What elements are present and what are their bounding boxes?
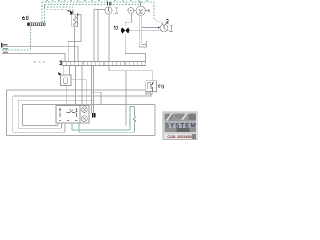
wire bus C2 left vertical (12, 96, 14, 132)
wire B1 left lead (94, 9, 105, 11)
grid connector 88 (92, 113, 96, 118)
wire vertical x98 to strip (97, 10, 99, 62)
wire L3 drop to strip (64, 54, 66, 62)
wire thermostat bottom to relay box (65, 86, 67, 106)
thermal cutout arrow (69, 11, 73, 15)
label of thermal cutout (67, 10, 69, 12)
wire bus C2 top y96 to box113 bottom (13, 92, 151, 96)
wire from cutout dot right-down-left to terminal strip (68, 15, 81, 62)
sensor bottom lead teal (133, 122, 135, 132)
wire M1 lead down right (142, 15, 147, 44)
wire link y92.2 (92, 91, 102, 93)
wire strip down at x109 (108, 66, 110, 71)
label 10 fan (114, 26, 118, 29)
label of line L1 (3, 44, 7, 45)
bus wire number labels (46, 0, 148, 2)
wire strip to grid connector b (93, 66, 95, 113)
wire motor line to gauge B2 with arrow (142, 27, 159, 29)
wire bus C1 top y90 to box113 (7, 89, 146, 91)
label 85 thermostat (58, 72, 61, 75)
relay lamp top (82, 107, 88, 113)
wire relay teal lead 2 (79, 123, 134, 132)
label above pressure switch B1 (107, 2, 112, 5)
label of line L2 (3, 48, 8, 49)
relay contact 2 (75, 108, 77, 117)
logo box (163, 112, 197, 140)
wire from bus to thermal cutout top (72, 9, 74, 14)
wire fan line to gauge contact (129, 30, 169, 32)
relay labels bottom (59, 120, 61, 121)
wire L1 drop to strip (77, 46, 79, 61)
relay contact 1 (59, 108, 61, 117)
wire M1 right lead with open tick (145, 9, 149, 12)
wire teal dashed bus line 1 (42, 1, 154, 3)
wire B1 bottom lead to strip (108, 14, 110, 61)
fan symbol E1 (121, 25, 129, 35)
thermal cutout U1 box (72, 14, 78, 27)
pressure gauge B2 circle (160, 24, 168, 32)
wire vertical x126 down to bottom bus (125, 71, 127, 126)
motor M1 circle (136, 6, 145, 15)
wire bus C3 top y100.3 (18, 99, 93, 101)
capacitor C1 circle (128, 7, 134, 13)
wire bus C2 bottom (13, 131, 65, 133)
wire fan bottom to strip right (125, 35, 145, 62)
wire bus C3 left vertical (17, 100, 19, 128)
wire bus C1 bottom y135.5 (7, 135, 155, 137)
junction dot at cutout top right (77, 14, 79, 16)
wire horizontal y104.5 (22, 104, 155, 106)
sensor loop left leg teal (130, 107, 135, 131)
contact of B2 (169, 25, 172, 33)
wire strip to relay box b (81, 66, 83, 106)
relay lamp bottom (82, 116, 88, 122)
left edge terminal marks (1, 43, 3, 47)
tick from bus to motor M1 (140, 5, 142, 7)
wire bus C4 bottom (22, 125, 58, 127)
wire relay lead to C3 bottom (61, 123, 63, 128)
wire teal dashed bus line 3 (44, 6, 73, 8)
wire bus C3 bottom (18, 127, 61, 129)
pressure switch B1 circle (105, 7, 112, 14)
label 113 (158, 85, 164, 88)
wire strip to thermostat right (69, 66, 71, 75)
wire teal dashed from connector 68 down to line L2 (30, 26, 32, 50)
wire vertical x94 to strip (93, 10, 95, 62)
thermostat T1 box (61, 75, 72, 86)
line L2 teal dashed (2, 49, 30, 51)
terminal strip X1 (62, 62, 146, 66)
wire link x101 y92-104.5 (100, 92, 102, 104)
connector 68 (28, 23, 46, 26)
sensor probe squiggle (133, 116, 135, 122)
wire teal dashed bus line 2 (45, 4, 141, 6)
wire teal dashed drop to pressure gauge B2 (154, 2, 160, 23)
faint wire number marks left of strip (33, 62, 45, 63)
relay switch blade (67, 109, 76, 113)
wire between C1 and M1 (134, 9, 136, 11)
wire horizontal y70.8 to box 113 (109, 71, 153, 81)
wire relay lead to C2 bottom (64, 123, 66, 132)
wire right vertical x155 (154, 105, 156, 136)
wire strip to relay box a (75, 66, 77, 106)
box113 terminal squares (146, 92, 148, 94)
label of line L3 (3, 51, 8, 52)
svg-text:COD. 203142B: COD. 203142B (167, 135, 192, 139)
wire bus C4 left vertical (21, 105, 23, 126)
wire cutout bottom lead to terminal strip (74, 27, 76, 62)
wire thermostat right to relay box (71, 80, 86, 106)
wire stub joining motor leads (146, 41, 148, 47)
label above fan motor M1 (138, 2, 141, 5)
relay box K1 (56, 106, 89, 123)
label 2 (166, 20, 168, 24)
wire fan top loop to capacitor (125, 13, 131, 26)
wire strip to thermostat left (63, 66, 65, 75)
wire relay teal lead 1 (72, 123, 130, 130)
wire teal dashed drop to connector 68 right (44, 5, 46, 23)
label 68 (23, 16, 29, 20)
line L3 gray (2, 53, 65, 55)
wire relay lead to C4 bottom (57, 123, 59, 126)
wire gray dashed bus line 4 (46, 8, 73, 10)
wire strip to grid connector a (91, 66, 93, 113)
label 1 terminal strip (60, 61, 62, 65)
contact of B1 (114, 7, 118, 14)
box 113 (146, 81, 157, 92)
wire bus C1 left vertical (6, 90, 8, 136)
wire teal dashed drop to connector 68 left (41, 2, 43, 23)
line L1 dark (2, 45, 78, 47)
wire M1 lead down left (139, 15, 146, 47)
